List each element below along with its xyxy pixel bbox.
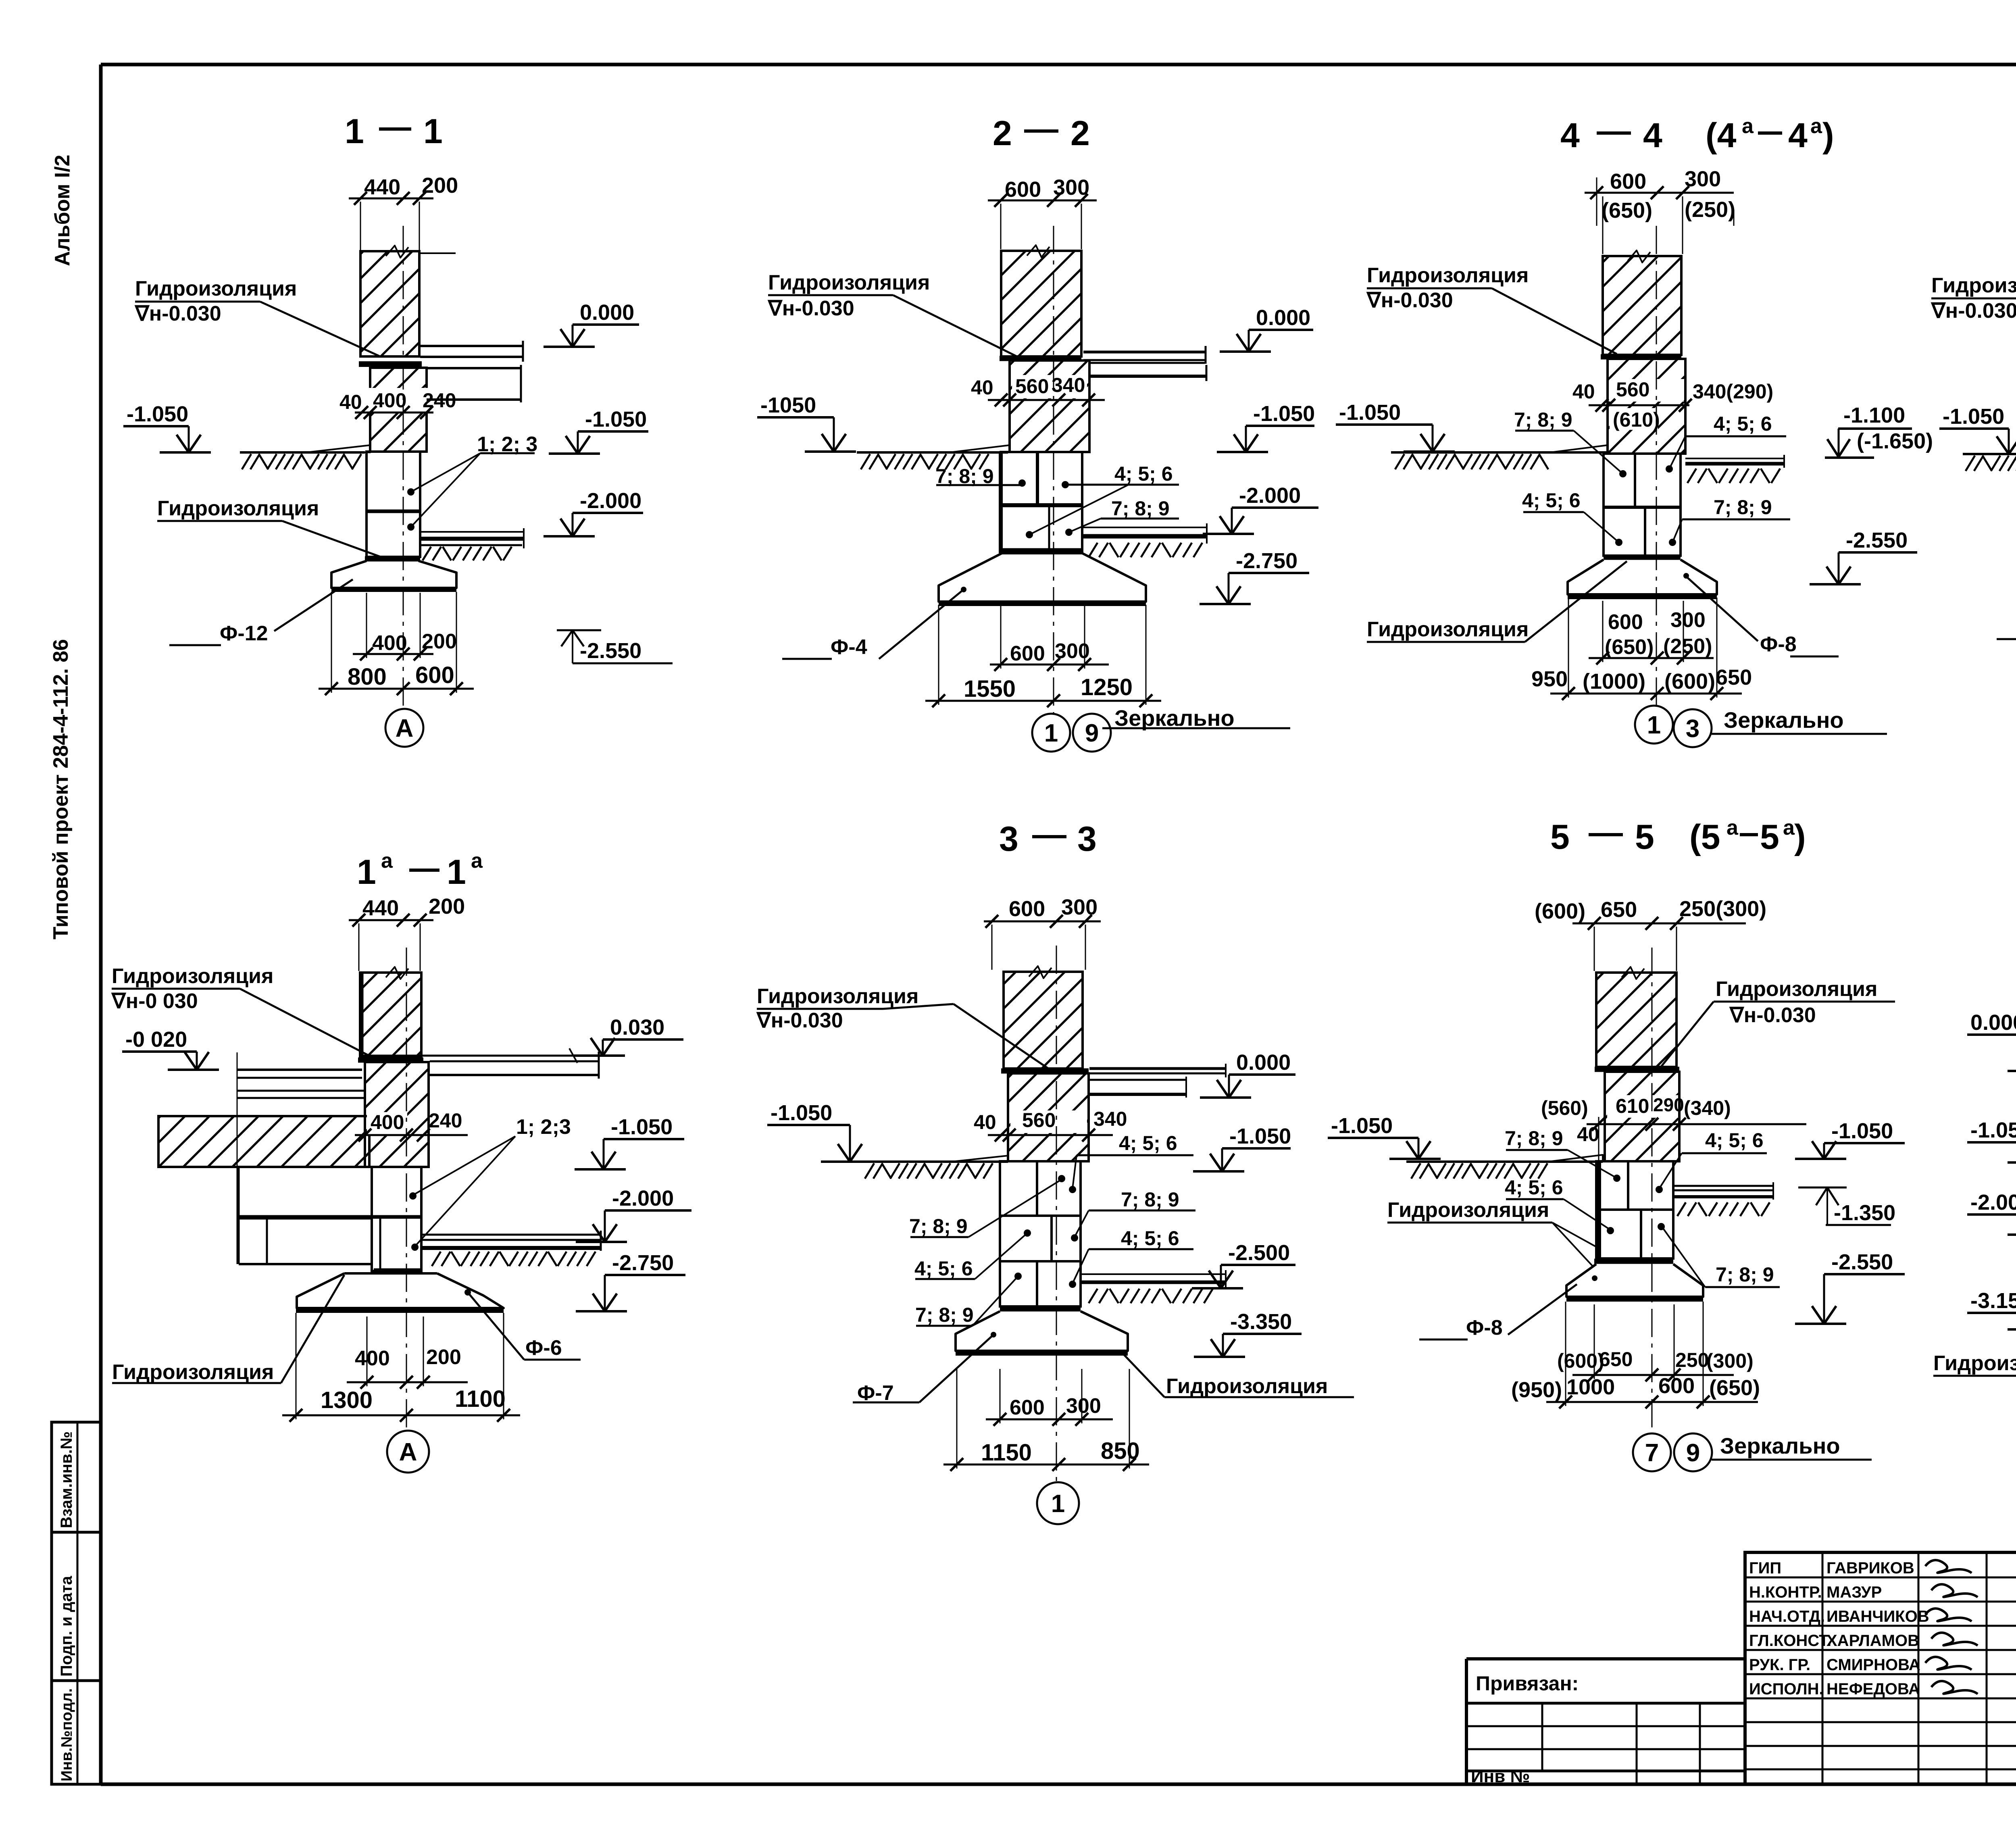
svg-text:ГАВРИКОВ: ГАВРИКОВ [1826,1559,1914,1577]
section 1a-1a right marker 0.030 [574,1015,683,1056]
svg-text:-2.750: -2.750 [1236,549,1297,573]
svg-text:Зеркально: Зеркально [1724,707,1844,733]
section 5-5 left marker -1.050 [1328,1114,1441,1159]
svg-text:400: 400 [373,389,406,412]
svg-text:7; 8; 9: 7; 8; 9 [915,1304,974,1326]
title block signature grid [1745,1552,2016,1784]
svg-text:(650): (650) [1602,198,1652,223]
svg-text:(600): (600) [1535,899,1585,923]
svg-text:-3.150: -3.150 [1970,1289,2016,1313]
svg-text:а: а [1810,115,1822,138]
section 1-1 foundation hatched block [370,368,427,452]
svg-text:∇н-0.030: ∇н-0.030 [1729,1004,1816,1027]
section 1a-1a left structure [158,1052,422,1264]
section 2-2 label 789 right [1065,497,1179,536]
svg-text:300: 300 [1670,608,1706,632]
section 2-2 label 789 left [935,465,1026,487]
svg-text:Гидроизоляция: Гидроизоляция [112,1360,274,1384]
svg-text:3: 3 [1686,715,1699,743]
section 5-5 waterproofing line 2 [1594,1259,1673,1264]
svg-text:290: 290 [1653,1094,1684,1115]
svg-text:400: 400 [371,1111,404,1133]
svg-text:300: 300 [1685,167,1721,191]
svg-text:Альбом I/2: Альбом I/2 [51,155,74,266]
svg-text:1550: 1550 [964,676,1016,702]
svg-text:7; 8; 9: 7; 8; 9 [1514,408,1572,431]
section 5-5 foundation hatched block [1605,1072,1679,1161]
svg-text:-1050: -1050 [760,393,816,417]
svg-text:-2.750: -2.750 [612,1251,674,1275]
svg-text:-2.500: -2.500 [1228,1241,1290,1265]
svg-text:5: 5 [1760,818,1779,856]
svg-text:А: А [399,1438,417,1466]
svg-text:3: 3 [1077,820,1097,858]
svg-text:7; 8; 9: 7; 8; 9 [909,1215,968,1237]
svg-text:4; 5; 6: 4; 5; 6 [1714,412,1772,435]
svg-text:1: 1 [447,853,466,892]
svg-text:(1000): (1000) [1583,669,1645,694]
section 2-2 label 456 right [1026,462,1179,538]
section 3-3 axis line [1056,946,1057,1482]
section 2-2 right marker -2.750 [1200,549,1309,604]
svg-text:∇н-0.030: ∇н-0.030 [756,1009,843,1032]
svg-text:Гидроизоляция: Гидроизоляция [1367,264,1529,287]
svg-text:МАЗУР: МАЗУР [1826,1583,1882,1601]
svg-text:НАЧ.ОТД.: НАЧ.ОТД. [1749,1608,1825,1625]
svg-text:а: а [1727,816,1739,840]
margin text project number [49,639,73,939]
svg-text:600: 600 [1608,610,1643,634]
section 3-3 label F-7 [853,1332,996,1405]
section 1-1 label gidroizolyaciya 1 [134,277,381,357]
svg-text:(650): (650) [1605,635,1654,659]
section 5-5 mid dims [1541,1094,1806,1146]
section 2-2 label gidroizolyaciya [767,271,1016,356]
section 1-1 footing [331,561,456,590]
section 1-1 right marker 0.000 [544,300,639,347]
section 2-2 upper floor slab right [1083,346,1206,381]
section 3-3 label gidroizolyaciya top [756,985,1048,1069]
section 1a-1a top dims [349,894,465,971]
section 1a-1a wall [360,967,421,1058]
svg-text:1: 1 [1647,711,1661,739]
section 1-1 upper floor slab right [420,341,523,402]
svg-text:600: 600 [1610,169,1646,194]
svg-text:200: 200 [422,173,458,198]
svg-text:200: 200 [426,1346,461,1369]
svg-text:Гидроизоляция: Гидроизоляция [1166,1375,1328,1398]
section 1a-1a bottom dims row1 [347,1317,468,1389]
section 3-3 waterproofing line 2 [1000,1306,1081,1312]
svg-text:(950): (950) [1511,1378,1562,1402]
svg-text:4; 5; 6: 4; 5; 6 [1705,1129,1764,1152]
section 2-2 top dims 600x300 [988,175,1097,249]
section 5-5 ground line left [1406,1155,1603,1179]
section 5-5 title [1550,816,1806,856]
svg-text:(4: (4 [1706,116,1737,155]
section 3-3 mid dims [974,1108,1127,1142]
section 4-4 label 789 left [1514,408,1627,477]
svg-text:∇н-0.030: ∇н-0.030 [1931,299,2016,323]
svg-text:0.000: 0.000 [1236,1050,1291,1075]
section 5-5 footing [1566,1264,1703,1299]
section 4-4 wall [1603,250,1681,355]
section 3-3 label 789 l3 [915,1273,1022,1326]
svg-text:ГЛ.КОНСТ.: ГЛ.КОНСТ. [1749,1632,1831,1650]
svg-text:560: 560 [1015,375,1049,398]
section 5-5 label gidroizolyaciya top [1661,977,1895,1067]
svg-text:7; 8; 9: 7; 8; 9 [1505,1127,1563,1150]
section 7-7 label gidroizolyaciya bottom [1933,1259,2016,1376]
svg-text:РУК. ГР.: РУК. ГР. [1749,1656,1810,1674]
section 5-5 foundation blocks [1596,1117,1673,1260]
svg-text:1: 1 [1044,719,1058,747]
section 3-3 foundation hatched block [1008,1073,1089,1161]
svg-text:): ) [1794,818,1806,856]
svg-text:(-1.650): (-1.650) [1857,429,1933,453]
svg-text:-1.050: -1.050 [1253,402,1315,426]
svg-text:1; 2;3: 1; 2;3 [516,1115,571,1139]
section 2-2 footing [939,553,1146,604]
section 5-5 right marker -1.350 [1798,1187,1895,1225]
section 3-3 axis circle 1 [1037,1482,1079,1524]
title block signatures [1925,1560,1978,1694]
svg-text:1150: 1150 [981,1439,1032,1466]
section 4-4 bottom dims row2 [1531,598,1752,700]
svg-text:1: 1 [423,112,443,151]
section 6-6 label F-11 [1997,572,2016,639]
svg-text:-1.100: -1.100 [1843,403,1905,427]
svg-text:(300): (300) [1706,1350,1754,1372]
svg-text:∇н-0.030: ∇н-0.030 [134,302,221,325]
svg-text:9: 9 [1686,1439,1700,1467]
svg-text:-1.050: -1.050 [771,1101,832,1125]
svg-text:340: 340 [1052,374,1085,396]
svg-text:240: 240 [429,1109,462,1132]
section 6-6 left marker -1.050 [1939,404,2016,454]
section 2-2 waterproofing line 2 [1001,548,1082,554]
section 1a-1a mid dims [355,1109,468,1142]
svg-text:Инв №: Инв № [1471,1767,1530,1786]
svg-text:600: 600 [1005,177,1041,202]
svg-text:а: а [381,849,393,873]
section 3-3 label 456 r3 [1069,1227,1193,1288]
section 2-2 bottom dims row2 [925,605,1161,707]
section 1a-1a right marker -2.750 [576,1251,685,1311]
section 1-1 leader dots 1;2;3 [407,433,537,531]
svg-text:∇н-0.030: ∇н-0.030 [767,297,854,320]
svg-text:-1.050: -1.050 [1943,404,2004,429]
svg-text:Инв.№подл.: Инв.№подл. [58,1688,75,1781]
svg-text:а: а [1783,816,1795,840]
svg-text:∇н-0.030: ∇н-0.030 [1366,289,1453,312]
svg-text:250: 250 [1675,1349,1709,1371]
section 4-4 label gidroizolyaciya bottom [1367,561,1627,642]
svg-text:400: 400 [355,1347,390,1370]
svg-text:4; 5; 6: 4; 5; 6 [1121,1227,1179,1250]
section 1-1 lower floor slab right [420,528,524,560]
section 4-4 label 456 right [1666,412,1786,473]
section 3-3 right marker -3.350 [1194,1310,1302,1357]
svg-text:610: 610 [1616,1095,1649,1117]
section 1a-1a label gidroizolyaciya bottom [112,1275,344,1384]
section 1a-1a left marker -0.020 [122,1027,219,1070]
section 1-1 left marker -1.050 [123,402,211,452]
section 5-5 label gidroizolyaciya left [1387,1198,1598,1266]
svg-text:НЕФЕДОВА: НЕФЕДОВА [1826,1680,1920,1698]
svg-text:200: 200 [422,630,457,653]
svg-text:0.030: 0.030 [610,1015,664,1039]
svg-text:400: 400 [372,631,407,655]
section 1-1 right marker -2.000 [544,489,643,536]
section 1-1 top dimension 440x200 [349,173,458,250]
svg-text:(600): (600) [1664,669,1715,694]
svg-text:-2.000: -2.000 [612,1186,674,1210]
strip label inv [58,1688,75,1781]
section 2-2 wall [1001,245,1081,356]
svg-text:560: 560 [1022,1109,1056,1131]
section 4-4 right floor slab low [1685,455,1784,483]
svg-text:Гидроизоляция: Гидроизоляция [1367,618,1529,641]
section 4-4 label gidroizolyaciya top [1366,264,1617,354]
section 3-3 right marker 0.000 [1200,1050,1295,1098]
svg-text:(5: (5 [1689,818,1720,856]
section 1a-1a waterproofing line 1 [358,1058,423,1063]
section 5-5 top dims [1535,897,1766,971]
svg-text:ГИП: ГИП [1749,1559,1781,1577]
svg-text:(650): (650) [1709,1376,1760,1400]
section 5-5 right marker -1.050 [1795,1119,1905,1159]
section 3-3 right marker -2.500 [1192,1241,1295,1288]
section 4-4 axis circles 1 3 [1635,706,1887,747]
svg-text:340: 340 [1093,1108,1127,1130]
section 3-3 right marker -1.050 [1193,1124,1291,1171]
svg-text:-2.550: -2.550 [1831,1250,1893,1274]
section 1-1 bottom dims row1 [353,593,457,660]
section 1-1 axis line [403,226,404,712]
section 4-4 left marker -1.050 [1336,400,1455,452]
svg-text:9: 9 [1085,719,1099,747]
section 3-3 upper floor slab right [1089,1064,1226,1098]
svg-text:1: 1 [1051,1490,1065,1518]
section 5-5 label 789 left [1505,1127,1620,1182]
section 5-5 label 456 right [1656,1129,1767,1193]
svg-text:-2.550: -2.550 [580,639,641,663]
svg-text:ХАРЛАМОВ: ХАРЛАМОВ [1826,1632,1919,1650]
svg-text:Ф-8: Ф-8 [1466,1316,1503,1339]
svg-text:-1.350: -1.350 [1834,1201,1895,1225]
svg-text:2: 2 [1070,114,1090,153]
section 3-3 wall [1004,966,1083,1069]
section 1a-1a label 123 [409,1115,571,1251]
section 1-1 axis circle A [385,709,423,747]
svg-text:-1.050: -1.050 [1339,400,1401,425]
section 3-3 label gidroizolyaciya bottom [1123,1353,1354,1398]
margin text Album I/2 [51,155,74,266]
section 2-2 mid dims 40-560-340 [971,374,1105,406]
section 1a-1a bottom dims row2 [282,1313,520,1422]
section 5-5 bottom dims row1 [1557,1304,1754,1381]
svg-text:7; 8; 9: 7; 8; 9 [1111,497,1170,520]
svg-text:(340): (340) [1684,1097,1731,1119]
svg-text:4; 5; 6: 4; 5; 6 [914,1257,973,1280]
svg-text:∇н-0 030: ∇н-0 030 [111,989,198,1013]
section 4-4 label 456 left low [1522,489,1622,546]
svg-text:340(290): 340(290) [1693,380,1773,403]
svg-text:0.000: 0.000 [1970,1010,2016,1035]
svg-text:(600): (600) [1557,1350,1604,1372]
svg-text:Подп. и дата: Подп. и дата [58,1576,75,1677]
svg-text:40: 40 [339,391,362,413]
svg-text:40: 40 [971,376,993,399]
section 2-2 lower floor slab right [1082,523,1207,557]
svg-text:4; 5; 6: 4; 5; 6 [1119,1132,1177,1154]
svg-text:200: 200 [429,894,465,919]
svg-text:5: 5 [1635,818,1654,856]
section 4-4 bottom dims row1 [1589,601,1714,665]
bottom-left stamp strip [52,1422,101,1784]
svg-text:-1.050: -1.050 [1331,1114,1393,1138]
section 1a-1a label gidroizolyaciya top [111,964,371,1056]
svg-text:4: 4 [1788,116,1808,155]
section 1-1 title [345,112,443,151]
section 3-3 foundation blocks [1000,1161,1081,1306]
section 4-4 foundation hatched block [1608,359,1685,454]
section 5-5 right floor slab [1673,1182,1773,1216]
svg-text:(610): (610) [1613,408,1660,431]
section 3-3 waterproofing line 1 [1001,1069,1089,1074]
svg-text:600: 600 [1010,1396,1045,1419]
svg-text:Гидроизоляция: Гидроизоляция [112,964,273,988]
svg-text:-1.050: -1.050 [585,407,647,431]
svg-text:Ф-4: Ф-4 [831,635,867,659]
svg-text:Гидроизоляция: Гидроизоляция [1387,1198,1549,1222]
strip label podp [58,1576,75,1677]
section 5-5 waterproofing line 1 [1595,1067,1679,1072]
section 1-1 mid dims 40-400-240 [339,388,456,419]
section 1-1 wall [360,246,456,356]
svg-text:7; 8; 9: 7; 8; 9 [1716,1263,1774,1286]
section 3-3 label 456 r1 [1069,1132,1193,1193]
section 3-3 bottom dims row1 [986,1369,1113,1426]
svg-text:Гидроизоляция: Гидроизоляция [157,497,319,520]
svg-text:ИСПОЛН.: ИСПОЛН. [1749,1680,1824,1698]
svg-text:Привязан:: Привязан: [1476,1672,1579,1695]
svg-text:Зеркально: Зеркально [1114,705,1235,731]
svg-text:а: а [1742,115,1754,138]
title block privyazan box [1466,1659,1745,1784]
svg-text:2: 2 [993,114,1012,153]
svg-text:4; 5; 6: 4; 5; 6 [1505,1176,1563,1199]
svg-text:Ф-12: Ф-12 [220,622,268,645]
svg-text:Гидроизоляция: Гидроизоляция [1931,274,2016,297]
section 1-1 bottom dims row2 [319,592,474,695]
title block privyazan text [1476,1672,1579,1695]
section 3-3 lower floor slab right [1081,1270,1226,1303]
section 2-2 ground line left [857,445,1010,469]
svg-text:Гидроизоляция: Гидроизоляция [757,985,918,1008]
section 1a-1a central column [365,1062,429,1271]
section 5-5 wall [1596,967,1677,1067]
section 2-2 left marker -1.050 [757,393,856,452]
svg-text:4: 4 [1643,116,1662,155]
section 1-1 waterproofing line 2 [365,556,420,562]
section 2-2 right marker -1.050 [1217,402,1315,452]
svg-text:1300: 1300 [321,1387,373,1413]
section 1a-1a waterproofing line 2 [374,1269,422,1274]
svg-text:7; 8; 9: 7; 8; 9 [1121,1188,1179,1211]
svg-text:Взам.инв.№: Взам.инв.№ [58,1431,75,1528]
section 3-3 label 789 l1 [909,1175,1065,1237]
svg-text:800: 800 [348,664,387,690]
svg-text:Зеркально: Зеркально [1720,1433,1840,1458]
svg-text:600: 600 [1658,1374,1695,1398]
svg-text:Типовой проект 284-4-112. 86: Типовой проект 284-4-112. 86 [49,639,73,939]
svg-text:1250: 1250 [1081,674,1133,700]
svg-text:1: 1 [345,112,364,151]
svg-text:Гидроизоляция: Гидроизоляция [1933,1352,2016,1375]
svg-text:-1.050: -1.050 [1831,1119,1893,1143]
section 1a-1a right marker -1.050 [575,1115,684,1169]
svg-text:-1.050: -1.050 [1970,1118,2016,1142]
section 3-3 top dims [984,895,1101,970]
svg-text:-2.000: -2.000 [1239,483,1301,508]
section 3-3 footing [956,1311,1128,1353]
section 2-2 foundation hatched block [1010,360,1089,452]
section 4-4 foundation blocks [1604,454,1681,556]
svg-text:650: 650 [1716,665,1752,690]
strip label vzam [58,1431,75,1528]
section 1a-1a label F-6 [464,1289,581,1360]
section 7-7 left marker -3.150 [1967,1289,2016,1329]
svg-text:-2.000: -2.000 [580,489,641,513]
section 1-1 label F-12 [169,579,353,645]
section 3-3 label 789 r2 [1071,1188,1195,1242]
section 3-3 bottom dims row2 [943,1369,1149,1471]
svg-text:560: 560 [1616,378,1649,401]
section 4-4 mid dims [1572,378,1773,431]
section 1-1 foundation blocks [367,452,420,557]
section 4-4 footing [1568,560,1717,597]
section 7-7 left marker -1.050 [1967,1118,2016,1162]
section 2-2 title [993,114,1090,153]
section 4-4 title [1560,115,1834,155]
svg-text:650: 650 [1599,1348,1633,1371]
section 2-2 right marker 0.000 [1220,306,1313,352]
section 3-3 label 456 l2 [914,1229,1031,1280]
section 1-1 right marker -1.050 [549,407,648,454]
svg-text:3: 3 [999,820,1018,858]
svg-text:7; 8; 9: 7; 8; 9 [1714,496,1772,519]
svg-text:4; 5; 6: 4; 5; 6 [1114,462,1173,485]
section 2-2 right marker -2.000 [1203,483,1318,534]
svg-text:(560): (560) [1541,1097,1588,1119]
svg-text:Гидроизоляция: Гидроизоляция [1716,977,1877,1001]
svg-text:40: 40 [974,1111,996,1133]
svg-text:0.000: 0.000 [1256,306,1310,330]
svg-text:1: 1 [357,853,376,892]
section 5-5 label 789 right low [1658,1223,1780,1287]
section 1a-1a axis circle A [387,1431,429,1473]
svg-text:): ) [1822,116,1834,155]
svg-text:40: 40 [1572,380,1595,403]
section 5-5 right marker -2.550 [1795,1250,1905,1324]
svg-text:-1.050: -1.050 [611,1115,673,1139]
svg-text:А: А [396,715,414,742]
svg-text:440: 440 [364,175,400,199]
svg-text:1100: 1100 [455,1386,506,1412]
section 4-4 label 789 right low [1669,496,1790,546]
